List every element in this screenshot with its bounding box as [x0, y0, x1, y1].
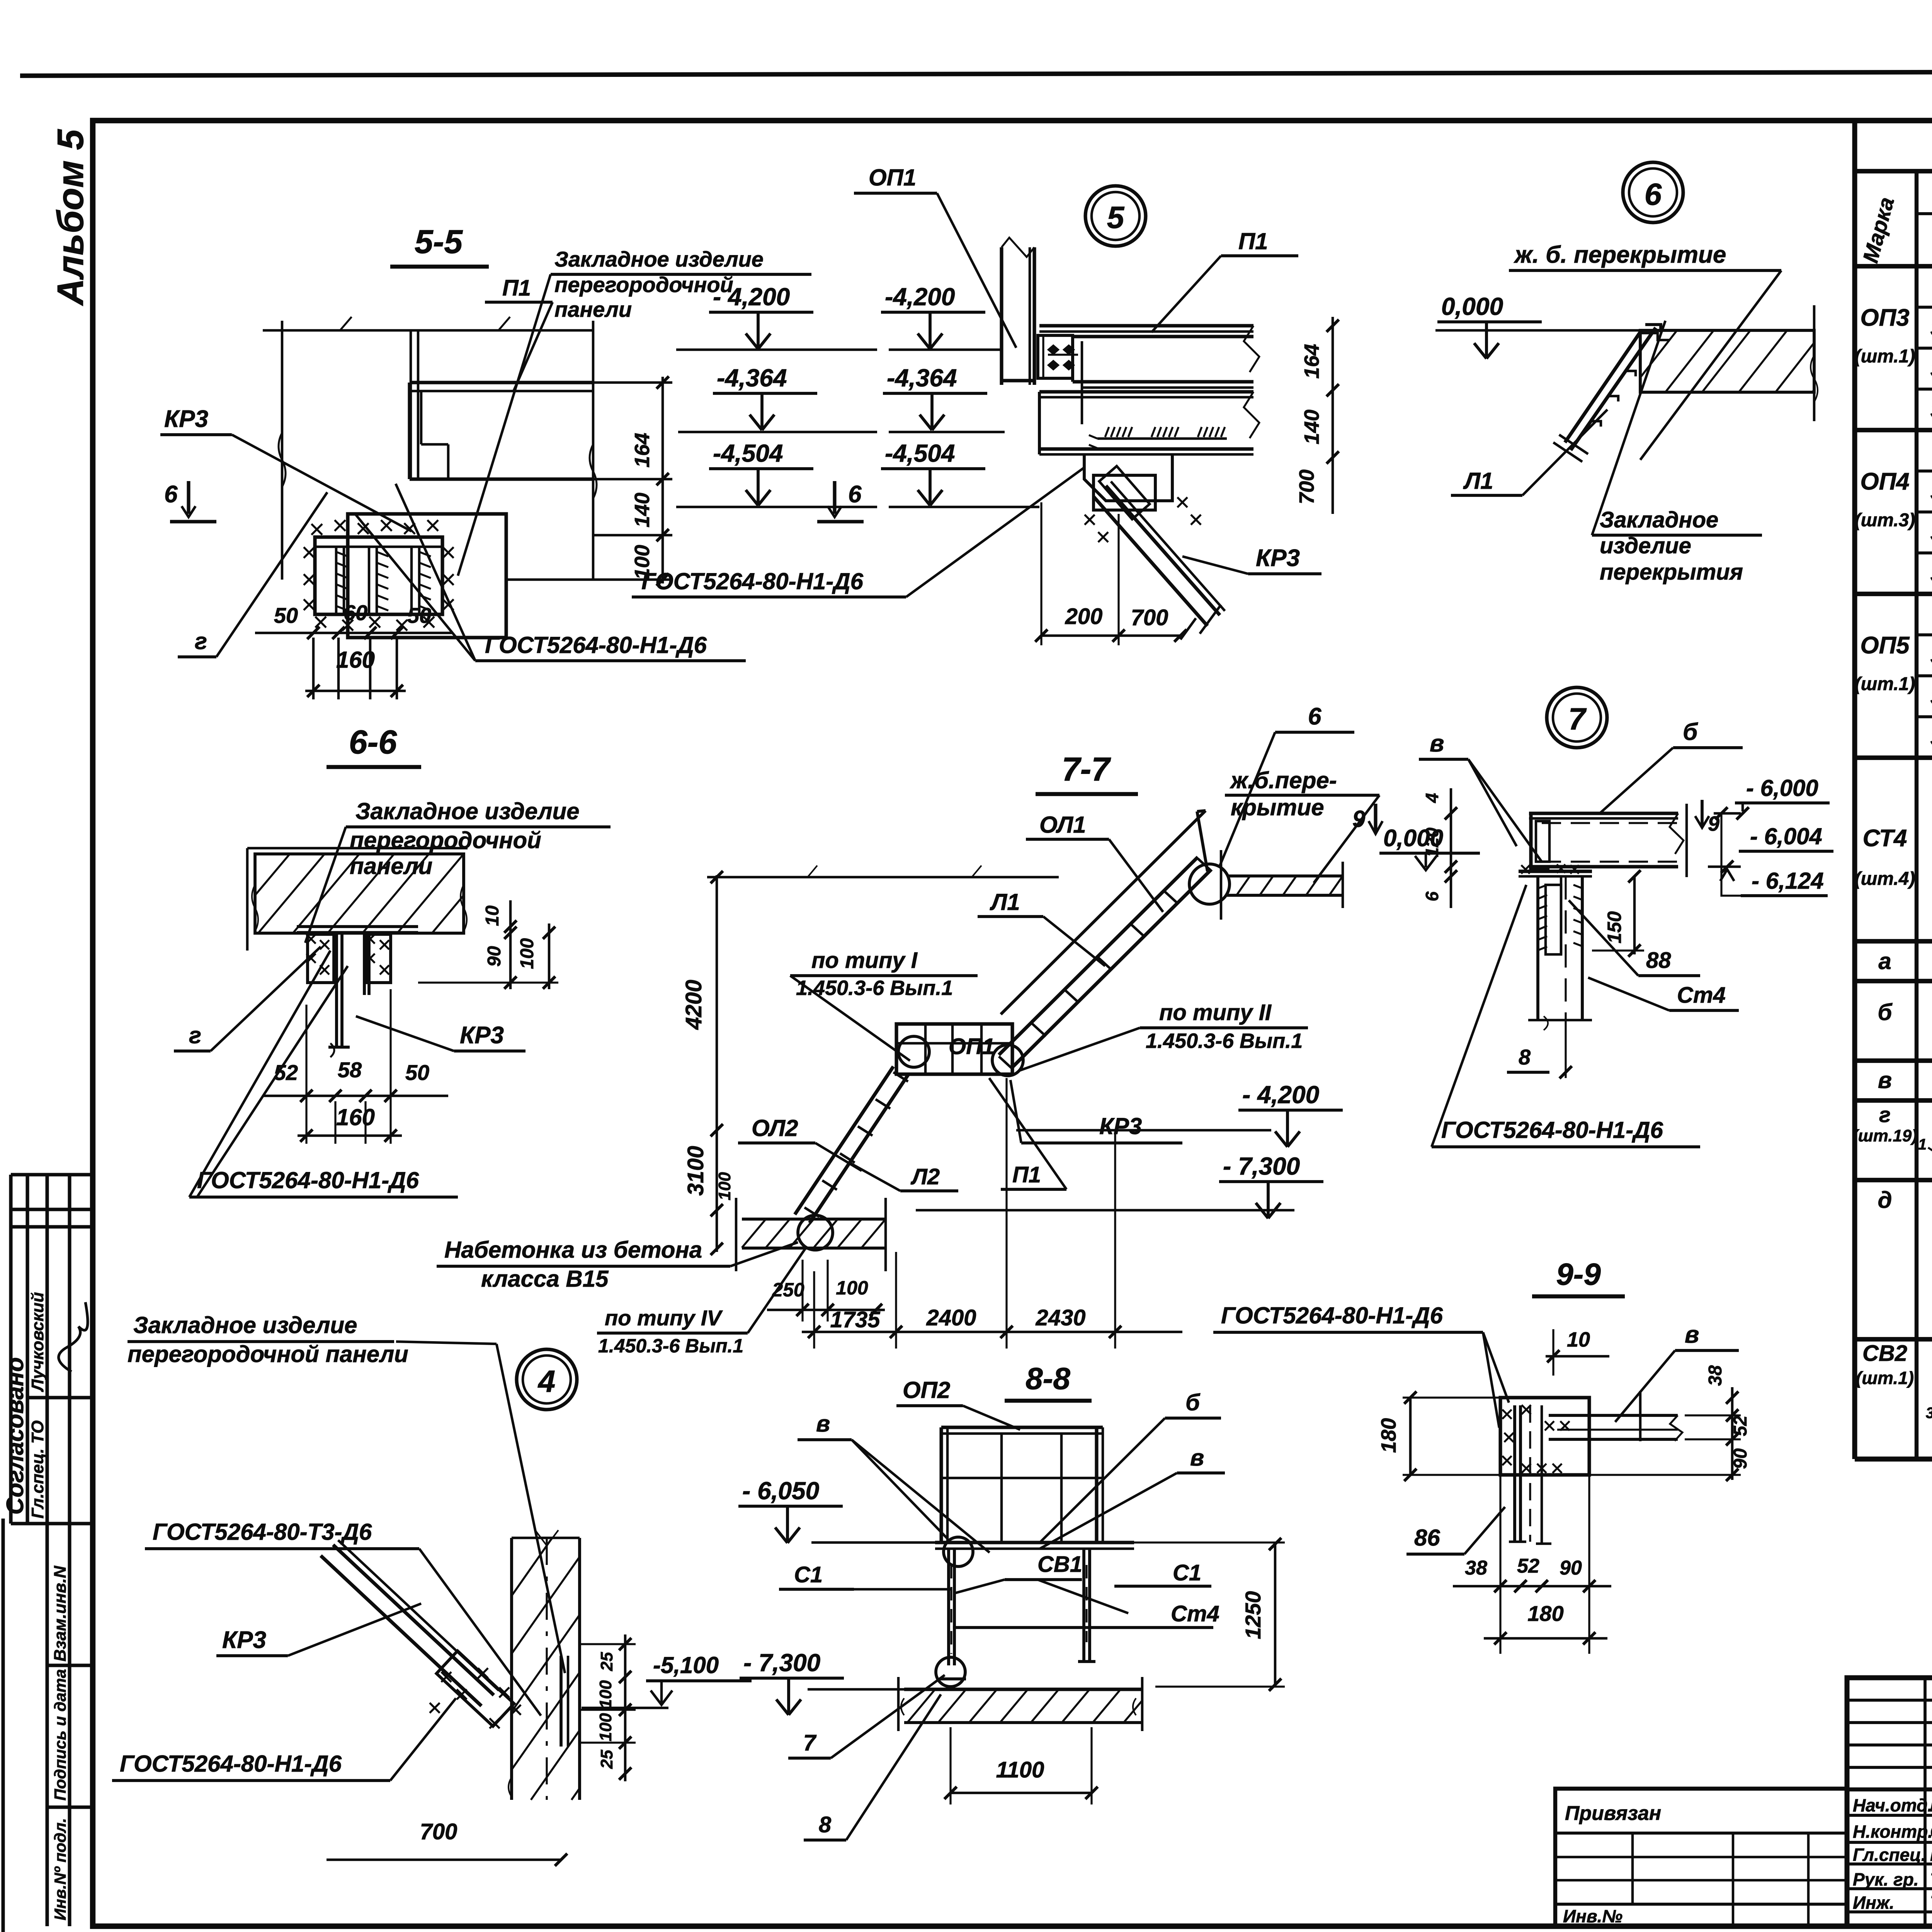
svg-text:Н.контр.: Н.контр. [1853, 1821, 1932, 1842]
svg-text:90: 90 [1730, 1448, 1751, 1469]
detail 7 stem below [1528, 876, 1592, 1078]
svg-text:ж. б. перекрытие: ж. б. перекрытие [1514, 241, 1726, 268]
5-5 label П1 [485, 276, 553, 390]
detail 4 right dim chain 25 100 100 25 [580, 1634, 636, 1781]
svg-text:П1: П1 [1012, 1162, 1041, 1187]
7-7 label по типу I [790, 948, 978, 1061]
svg-text:50: 50 [405, 1060, 429, 1085]
svg-text:Согласовано: Согласовано [2, 1357, 29, 1515]
svg-text:4: 4 [1422, 793, 1442, 803]
5-5 cut boundary verticals [263, 317, 597, 580]
left stamp column grid [11, 1175, 93, 1926]
svg-text:Закладное изделие: Закладное изделие [355, 798, 580, 824]
detail 7 channel [1531, 813, 1549, 869]
svg-text:ЭППХ-15: ЭППХ-15 [1930, 643, 1932, 670]
svg-text:38: 38 [1705, 1365, 1726, 1386]
svg-text:КР3: КР3 [164, 406, 208, 432]
svg-text:8-8: 8-8 [1026, 1361, 1070, 1396]
detail 5 column [1002, 238, 1034, 385]
svg-text:СВ2: СВ2 [1862, 1341, 1907, 1366]
svg-text:Л1: Л1 [990, 889, 1020, 915]
svg-text:52: 52 [1730, 1415, 1751, 1436]
8-8 elevation -7,300 [740, 1649, 904, 1715]
svg-text:150: 150 [1604, 911, 1625, 944]
svg-text:класса В15: класса В15 [481, 1266, 609, 1292]
8-8 label С1 (right) [1114, 1560, 1211, 1586]
svg-text:Подпись и дата: Подпись и дата [51, 1669, 69, 1801]
svg-text:- 7,300: - 7,300 [743, 1649, 820, 1677]
9-9 label ГОСТ5264-80-Н1-Д6 [1213, 1303, 1509, 1428]
8-8 railing grid [941, 1427, 1103, 1543]
7-7 elevation -7,300 [916, 1152, 1323, 1218]
svg-text:Лучковский: Лучковский [28, 1292, 47, 1392]
detail 5 diagonal brace КР3 [1085, 466, 1225, 634]
detail 4 elevation -5,100 [582, 1652, 752, 1708]
detail 6 label Закладное изделие перекрытия [1592, 321, 1762, 585]
svg-text:-4,504: -4,504 [885, 439, 955, 467]
svg-text:10: 10 [482, 905, 503, 926]
section 8-8 title [1005, 1361, 1092, 1401]
detail 5 label ГОСТ5264-80-Н1-Д6 [632, 468, 1084, 597]
svg-text:Закладное изделие: Закладное изделие [554, 247, 764, 271]
detail 4 label ГОСТ5264-80-Т3-Д6 [145, 1519, 541, 1716]
svg-text:5: 5 [1107, 200, 1125, 235]
svg-text:ОП4: ОП4 [1860, 468, 1909, 495]
svg-text:ЭБПХ-18: ЭБПХ-18 [1930, 397, 1932, 424]
stamp signature [59, 1302, 88, 1372]
8-8 label 8 [804, 1694, 941, 1840]
svg-text:- 6,050: - 6,050 [742, 1477, 819, 1505]
svg-text:Гл.спец.: Гл.спец. [1853, 1845, 1926, 1865]
svg-text:д: д [1878, 1187, 1892, 1213]
7-7 lower ladder ОЛ2 Л2 [795, 1066, 908, 1223]
5-5 elevation marks [676, 283, 877, 507]
svg-text:Привязан: Привязан [1565, 1802, 1661, 1825]
svg-text:140: 140 [631, 493, 654, 527]
7-7 platform ОП1 [896, 1024, 1023, 1076]
7-7 top slab [1221, 850, 1343, 920]
7-7 label П1 [989, 1078, 1066, 1189]
svg-text:Закладное: Закладное [1600, 507, 1718, 532]
svg-text:ГОСТ5264-80-Н1-Д6: ГОСТ5264-80-Н1-Д6 [641, 568, 864, 594]
svg-text:Ст4: Ст4 [1171, 1601, 1219, 1626]
svg-text:(шт.19): (шт.19) [1852, 1126, 1917, 1145]
svg-text:Инв.Nº подл.: Инв.Nº подл. [51, 1818, 69, 1920]
svg-text:б: б [1185, 1389, 1201, 1415]
svg-text:Закладное изделие: Закладное изделие [133, 1312, 357, 1338]
detail 7 beam [1529, 804, 1687, 877]
9-9 horizontal bar [1549, 1391, 1682, 1441]
detail 4 label Закладное изделие перегородочной панели [128, 1312, 565, 1673]
5-5 label ГОСТ5264-80-Н1-Д6 [355, 484, 746, 661]
7-7 bottom dims 1735 2400 2430 [802, 1078, 1182, 1349]
svg-text:1.450.3-6 Вып.1: 1.450.3-6 Вып.1 [598, 1335, 743, 1357]
7-7 label ОЛ2 [738, 1115, 862, 1171]
svg-text:по типу IV: по типу IV [605, 1306, 723, 1330]
7-7 label по типу II [1020, 1000, 1308, 1070]
svg-text:- 6,124: - 6,124 [1752, 868, 1824, 894]
svg-text:8: 8 [819, 1812, 832, 1837]
svg-text:в: в [1430, 730, 1444, 757]
section 9-9 title [1532, 1257, 1625, 1296]
svg-text:164: 164 [1300, 344, 1323, 379]
svg-text:90: 90 [1560, 1557, 1582, 1579]
detail 6 elevation 0,000 [1435, 293, 1640, 359]
svg-text:Власенко: Власенко [1930, 1845, 1932, 1865]
svg-text:Гл.спец. ТО: Гл.спец. ТО [28, 1420, 47, 1519]
svg-text:Третьякова: Третьякова [1930, 1893, 1932, 1913]
table row в [1878, 1064, 1932, 1093]
7-7 upper ladder Л1 [999, 811, 1212, 1069]
svg-text:10: 10 [1567, 1328, 1590, 1351]
svg-text:- 4,200: - 4,200 [1242, 1081, 1319, 1109]
svg-text:Марка: Марка [1858, 194, 1899, 265]
svg-text:7: 7 [1568, 702, 1587, 736]
svg-text:50: 50 [274, 603, 298, 628]
svg-text:-4,364: -4,364 [717, 364, 787, 392]
8-8 elevation -6,050 [738, 1477, 939, 1543]
detail 7 elevation -6,124 [1741, 868, 1828, 896]
svg-text:ГОСТ5264-80-Н1-Д6: ГОСТ5264-80-Н1-Д6 [485, 632, 707, 658]
svg-text:100: 100 [596, 1680, 615, 1709]
8-8 label б [1040, 1389, 1221, 1543]
detail 5 label КР3 [1182, 545, 1321, 574]
svg-text:38: 38 [1465, 1557, 1487, 1579]
svg-text:С1: С1 [794, 1562, 823, 1587]
svg-text:С1: С1 [1173, 1560, 1201, 1585]
section 6-6 title [327, 724, 421, 767]
detail 7 label 8 [1507, 1045, 1572, 1078]
stamp text Гл.спец. ТО [28, 1420, 47, 1519]
table Ведомость элементов : outer & header grid [1855, 121, 1932, 1459]
svg-text:ОП2: ОП2 [903, 1377, 950, 1403]
7-7 level line 0,000 [707, 866, 1059, 877]
svg-text:58: 58 [338, 1058, 362, 1082]
svg-text:Тахтамышева: Тахтамышева [1930, 1869, 1932, 1889]
svg-text:СВ1: СВ1 [1037, 1552, 1082, 1577]
left annex strip Привязан [1555, 1789, 1847, 1926]
svg-text:(шт.1): (шт.1) [1856, 1368, 1914, 1388]
7-7 elevation -4,200 [1016, 1081, 1343, 1147]
svg-text:ЭППХ-18: ЭППХ-18 [1930, 315, 1932, 342]
5-5 section mark 6 (right) [817, 481, 864, 522]
svg-text:П1: П1 [502, 276, 531, 301]
svg-text:6: 6 [164, 481, 178, 508]
detail 7 label Ст4 [1588, 978, 1739, 1010]
svg-text:в: в [1190, 1445, 1204, 1471]
table block д [1878, 1184, 1932, 1331]
detail 5 right dim chain 164 140 700 [1295, 317, 1339, 514]
6-6 embed plate under slab [297, 927, 418, 983]
table row а [1878, 945, 1932, 974]
svg-text:в: в [1878, 1067, 1892, 1093]
title block grid [1847, 1678, 1932, 1926]
svg-text:100: 100 [596, 1713, 615, 1742]
6-6 stem plates [328, 933, 369, 1057]
7-7 label Л1 [978, 889, 1105, 966]
svg-text:1: 1 [1918, 1136, 1927, 1153]
8-8 posts below floor [936, 1537, 1095, 1687]
svg-text:(шт.4): (шт.4) [1855, 869, 1915, 889]
svg-text:Л2: Л2 [910, 1164, 940, 1189]
detail 7 elevation -6,000 [1735, 775, 1830, 820]
section 5-5 title [390, 223, 489, 267]
svg-text:180: 180 [1527, 1601, 1563, 1626]
7-7 bottom slab набетонка [736, 1198, 886, 1271]
detail 6 circle [1623, 162, 1683, 223]
svg-text:52: 52 [1517, 1555, 1539, 1577]
svg-text:-5,100: -5,100 [653, 1652, 719, 1678]
7-7 label ОЛ1 [1026, 812, 1163, 912]
svg-text:ЭСПХ-18: ЭСПХ-18 [1930, 356, 1932, 383]
9-9 right dims 38 52 90 [1589, 1365, 1751, 1481]
7-7 label ОП1 [949, 1034, 995, 1059]
8-8 dim 1250 [1107, 1538, 1285, 1691]
detail 7 label б [1600, 719, 1743, 813]
9-9 dim 10 [1546, 1328, 1609, 1376]
detail 4 diagonal brace КР3 [321, 1540, 568, 1747]
6-6 slab hatched [247, 848, 468, 951]
svg-text:ЭППХ-9: ЭППХ-9 [1930, 479, 1932, 506]
svg-text:6: 6 [1422, 891, 1442, 901]
svg-text:Набетонка из бетона: Набетонка из бетона [444, 1237, 702, 1263]
svg-text:(шт.3): (шт.3) [1855, 510, 1915, 531]
detail 5 beams П1 [1039, 326, 1259, 454]
detail 5 weld marks row [1089, 427, 1227, 448]
5-5 embed plate detail [304, 514, 506, 638]
svg-text:Сокольская: Сокольская [1930, 1821, 1932, 1842]
detail 7 label 88 [1569, 900, 1700, 976]
svg-text:9: 9 [1708, 812, 1719, 835]
svg-text:6: 6 [1308, 703, 1321, 730]
svg-text:250: 250 [772, 1279, 804, 1301]
8-8 label СВ1 [955, 1552, 1128, 1613]
svg-text:Взам.инв.N: Взам.инв.N [51, 1565, 70, 1662]
6-6 right dims 10 90 100 [418, 900, 558, 989]
svg-text:6: 6 [848, 481, 862, 508]
svg-text:Альбом 5: Альбом 5 [50, 129, 91, 306]
svg-text:ГОСТ5264-80-Н1-Д6: ГОСТ5264-80-Н1-Д6 [1221, 1303, 1443, 1328]
8-8 dim 1100 [944, 1727, 1098, 1804]
label Альбом 5 (vertical) [50, 129, 91, 306]
svg-text:88: 88 [1646, 948, 1671, 973]
svg-text:б: б [1878, 999, 1893, 1025]
detail 4 wall hatched [509, 1530, 580, 1800]
5-5 section mark 6 (left) [164, 481, 216, 522]
9-9 label в [1615, 1321, 1739, 1422]
svg-text:ОП1: ОП1 [949, 1034, 995, 1059]
detail 4 label КР3 [216, 1604, 421, 1656]
svg-text:Инж.: Инж. [1853, 1893, 1895, 1913]
svg-text:160: 160 [336, 1104, 375, 1130]
detail 4 circle [517, 1349, 577, 1410]
svg-text:б: б [1683, 719, 1698, 745]
svg-text:г: г [195, 628, 207, 654]
svg-text:КР3: КР3 [222, 1627, 266, 1653]
9-9 dim 180 (left) [1377, 1391, 1503, 1481]
detail 4 dim 700 [327, 1819, 567, 1866]
8-8 floor beam [935, 1543, 1134, 1549]
5-5 partition panel [410, 330, 593, 479]
7-7 small dims 250 100 [767, 1260, 885, 1321]
detail 6 slab [1640, 305, 1818, 421]
table lower blocks grid [1855, 981, 1932, 1419]
svg-text:5-5: 5-5 [415, 223, 463, 260]
svg-text:50: 50 [407, 603, 431, 628]
7-7 elevation 0,000 [1379, 825, 1480, 870]
detail 7 left dims 4 120 6 [1422, 788, 1457, 908]
svg-text:- 7,300: - 7,300 [1223, 1152, 1300, 1180]
svg-text:25: 25 [597, 1750, 616, 1769]
svg-text:перегородочной: перегородочной [554, 272, 733, 297]
svg-text:в: в [816, 1411, 830, 1437]
detail 5 label ОП1 [854, 165, 1016, 348]
7-7 label КР3 [1010, 1080, 1182, 1143]
7-7 section mark 9 [1352, 804, 1383, 834]
svg-text:2400: 2400 [926, 1305, 976, 1330]
svg-text:(шт.1): (шт.1) [1855, 346, 1915, 367]
detail 5 elevation marks [881, 283, 1039, 507]
sheet left trim line [1, 1519, 5, 1932]
detail 5 circle [1085, 186, 1146, 246]
svg-text:по типу I: по типу I [811, 948, 918, 973]
svg-text:700: 700 [1295, 469, 1318, 504]
svg-text:3100: 3100 [683, 1146, 708, 1196]
svg-text:СТ4: СТ4 [1863, 825, 1907, 852]
8-8 label ОП2 [896, 1377, 1020, 1430]
svg-text:ГОСТ5264-80-Н1-Д6: ГОСТ5264-80-Н1-Д6 [120, 1751, 342, 1777]
detail 6 label ж.б.перекрытие [1509, 241, 1781, 460]
stamp text Подпись и дата [51, 1669, 69, 1801]
detail 5 dims 200 700 [1035, 502, 1196, 645]
7-7 label по типу IV [597, 1248, 806, 1357]
table block б [1878, 960, 1932, 1064]
svg-text:крытие: крытие [1231, 794, 1324, 820]
svg-text:КР3: КР3 [1099, 1113, 1142, 1139]
detail 5 label П1 [1151, 228, 1298, 332]
svg-text:а: а [1878, 948, 1891, 974]
svg-text:4200: 4200 [681, 980, 706, 1030]
svg-text:Нач.отд.: Нач.отд. [1853, 1795, 1932, 1815]
8-8 label в (left) [798, 1411, 990, 1553]
svg-text:-4,200: -4,200 [885, 283, 955, 311]
8-8 label в (right) [1040, 1445, 1225, 1549]
8-8 slab [898, 1677, 1142, 1731]
detail 7 level marks [1695, 800, 1741, 896]
svg-text:П1: П1 [1238, 228, 1268, 254]
6-6 dims 52 58 50 160 [263, 989, 448, 1144]
5-5 anchor legs [313, 638, 397, 699]
svg-text:панели: панели [554, 297, 632, 321]
svg-text:Л1: Л1 [1463, 468, 1493, 494]
svg-text:3: 3 [1926, 1405, 1932, 1422]
detail 6 ladder [1553, 325, 1669, 462]
table block СВ2 [1856, 1341, 1932, 1466]
5-5 dims 50 60 50 160 [255, 600, 452, 697]
svg-text:1250: 1250 [1241, 1591, 1265, 1639]
svg-text:Инв.№: Инв.№ [1563, 1906, 1622, 1926]
svg-text:200: 200 [1065, 604, 1103, 629]
stamp text Взам.инв.N [51, 1565, 70, 1662]
detail 7 label в [1419, 730, 1542, 862]
svg-text:700: 700 [1131, 605, 1168, 630]
svg-text:100: 100 [836, 1277, 868, 1299]
svg-text:ОП1: ОП1 [869, 165, 916, 190]
svg-text:КР3: КР3 [460, 1022, 504, 1049]
svg-text:ЭСПХ-15: ЭСПХ-15 [1930, 684, 1932, 711]
8-8 label С1 (left) [779, 1562, 951, 1589]
svg-text:6-6: 6-6 [349, 724, 397, 761]
table block СТ4 [1855, 757, 1932, 941]
6-6 label КР3 [356, 1016, 526, 1051]
table header texts [1858, 135, 1932, 265]
7-7 left dim chain 4200 3100 100 [681, 871, 734, 1255]
svg-text:1735: 1735 [830, 1307, 880, 1332]
6-6 label ГОСТ5264-80-Н1-Д6 [189, 951, 458, 1197]
5-5 label Закладное изделие перегородочной панели [458, 247, 811, 576]
svg-text:-4,364: -4,364 [887, 364, 957, 392]
detail 4 label ГОСТ5264-80-Н1-Д6 [112, 1698, 456, 1781]
6-6 label г [174, 947, 321, 1051]
svg-text:120: 120 [1422, 827, 1442, 857]
svg-text:ГОСТ5264-80-Н1-Д6: ГОСТ5264-80-Н1-Д6 [197, 1167, 419, 1193]
9-9 main plate square [1500, 1398, 1589, 1544]
svg-text:7: 7 [803, 1730, 817, 1755]
5-5 label г [178, 492, 327, 657]
svg-text:ЭБПХ-15: ЭБПХ-15 [1930, 725, 1932, 752]
svg-text:180: 180 [1377, 1418, 1400, 1453]
stamp text Лучковский [28, 1292, 47, 1392]
svg-text:(шт.1): (шт.1) [1855, 674, 1915, 694]
svg-text:9: 9 [1352, 806, 1366, 832]
svg-text:ж.б.пере-: ж.б.пере- [1230, 767, 1337, 793]
svg-text:г: г [1879, 1102, 1891, 1127]
table rows ОП3 ОП4 ОП5 [1855, 274, 1932, 758]
svg-text:160: 160 [336, 647, 375, 673]
svg-text:100: 100 [715, 1172, 734, 1201]
svg-text:-4,504: -4,504 [713, 439, 783, 467]
svg-text:100: 100 [517, 938, 537, 969]
svg-text:700: 700 [420, 1819, 457, 1844]
svg-text:ГОСТ5264-80-Н1-Д6: ГОСТ5264-80-Н1-Д6 [1441, 1117, 1663, 1143]
svg-text:г: г [189, 1022, 201, 1048]
svg-text:перекрытия: перекрытия [1600, 560, 1743, 585]
title block texts [1853, 1696, 1932, 1913]
svg-text:9-9: 9-9 [1556, 1257, 1601, 1291]
8-8 label Ст4 [953, 1601, 1219, 1628]
detail 7 dim 150 [1592, 870, 1644, 957]
section 7-7 title [1036, 751, 1138, 794]
svg-text:90: 90 [484, 946, 505, 967]
9-9 label 86 [1406, 1507, 1505, 1554]
svg-text:по типу II: по типу II [1159, 1000, 1272, 1025]
detail 5 lower bracket [1084, 454, 1172, 501]
svg-text:Рук. гр.: Рук. гр. [1853, 1869, 1919, 1889]
svg-text:перегородочной панели: перегородочной панели [128, 1341, 408, 1367]
svg-text:ЭБПХ-9: ЭБПХ-9 [1930, 561, 1932, 588]
svg-text:7-7: 7-7 [1062, 751, 1111, 788]
6-6 label Закладное изделие перегородочной панели [305, 798, 611, 943]
7-7 label Набетонка из бетона класса В15 [437, 1237, 798, 1292]
table block г [1852, 1102, 1932, 1196]
svg-text:- 6,004: - 6,004 [1750, 823, 1822, 849]
sheet top trim line [20, 71, 1932, 76]
7-7 label 6 with leader [1219, 703, 1354, 867]
9-9 bottom dims 38 52 90 180 [1453, 1475, 1611, 1654]
svg-text:140: 140 [1300, 410, 1323, 444]
svg-text:КР3: КР3 [1256, 545, 1300, 571]
stamp text Инв.N подл [51, 1818, 69, 1920]
